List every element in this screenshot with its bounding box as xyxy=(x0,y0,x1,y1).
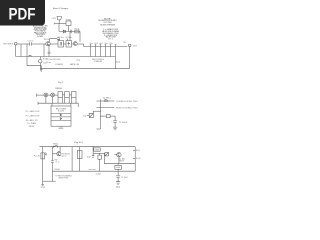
svg-text:WIRING: WIRING xyxy=(55,88,63,90)
node junction xyxy=(100,111,101,112)
svg-text:C1 10u: C1 10u xyxy=(28,41,34,43)
wire xyxy=(72,43,74,45)
svg-text:TP3: TP3 xyxy=(76,60,80,62)
svg-text:100k: 100k xyxy=(95,149,100,151)
switch SW1 xyxy=(54,145,58,148)
wire xyxy=(110,115,115,117)
wire xyxy=(69,32,71,41)
svg-text:100k: 100k xyxy=(116,167,121,169)
svg-text:C1 1000uF: C1 1000uF xyxy=(119,122,128,124)
wire xyxy=(63,94,65,96)
ground xyxy=(41,181,44,185)
wire xyxy=(52,97,54,103)
wire xyxy=(32,43,46,45)
wire xyxy=(45,97,47,103)
wire xyxy=(75,98,77,104)
wire xyxy=(79,147,81,151)
wire xyxy=(114,123,116,128)
resistor R6 tap xyxy=(133,157,135,159)
svg-text:TR2 Si: TR2 Si xyxy=(119,161,125,163)
wire lower rail xyxy=(104,163,135,165)
wire xyxy=(37,94,44,96)
capacitor C11 xyxy=(51,161,54,163)
svg-text:BC 108: BC 108 xyxy=(119,158,125,160)
switch S1 xyxy=(104,100,106,102)
wire xyxy=(48,94,51,96)
wire xyxy=(69,94,71,96)
switch contact S2a xyxy=(90,45,92,57)
resistor R1 xyxy=(106,115,110,118)
wire xyxy=(64,43,67,45)
svg-text:2u2: 2u2 xyxy=(94,43,98,45)
wire xyxy=(83,44,85,47)
lamp PL3 xyxy=(41,153,45,159)
svg-text:UNLESS OTHERWISE: UNLESS OTHERWISE xyxy=(100,24,116,26)
switch contact S2f xyxy=(115,45,117,57)
relay RLA1 xyxy=(66,21,71,26)
wire top rail xyxy=(40,146,136,148)
svg-text:TP2: TP2 xyxy=(123,42,126,44)
wire xyxy=(52,103,71,106)
svg-text:9V: 9V xyxy=(54,160,57,162)
wire xyxy=(118,157,120,164)
wire xyxy=(68,26,70,32)
trimmer VR1 xyxy=(29,55,32,56)
wire xyxy=(93,152,104,154)
svg-text:1kHz OUTPUT LEVEL: 1kHz OUTPUT LEVEL xyxy=(50,59,61,61)
svg-text:VALUES OHM: VALUES OHM xyxy=(106,36,116,39)
svg-text:5% 1: 5% 1 xyxy=(108,39,113,41)
capacitor C13 xyxy=(116,176,120,178)
wire xyxy=(97,128,101,130)
wire mid rail xyxy=(52,170,135,172)
capacitor C10 xyxy=(113,121,117,123)
wire xyxy=(51,147,53,161)
lamp PL2 xyxy=(51,93,55,97)
ground xyxy=(113,127,117,130)
wire xyxy=(51,163,53,182)
svg-text:4u7: 4u7 xyxy=(99,43,103,45)
svg-text:FRONT DOOR BELL PUSH: FRONT DOOR BELL PUSH xyxy=(116,108,138,110)
wire xyxy=(59,147,61,152)
node bus end xyxy=(37,102,39,105)
output jack SK2 xyxy=(128,44,131,47)
diode D3 xyxy=(60,118,62,120)
wire spine xyxy=(99,99,101,129)
svg-text:S1 BELL: S1 BELL xyxy=(103,97,111,99)
svg-text:COIL: COIL xyxy=(83,115,87,117)
wire mid rail xyxy=(16,56,116,58)
wire bottom left rail xyxy=(43,180,56,182)
svg-text:B1 = BELL 12V: B1 = BELL 12V xyxy=(26,120,39,122)
wire xyxy=(77,43,83,45)
svg-text:10u: 10u xyxy=(104,43,108,45)
wire xyxy=(50,43,58,45)
buzzer WD2 xyxy=(105,153,109,156)
wire xyxy=(92,111,94,113)
wire xyxy=(20,44,22,57)
svg-text:LS1: LS1 xyxy=(52,18,56,20)
svg-text:R2 1k: R2 1k xyxy=(75,29,80,31)
svg-text:SW1: SW1 xyxy=(53,143,58,145)
wire xyxy=(79,32,81,42)
svg-text:Basic IC Designs: Basic IC Designs xyxy=(53,8,68,10)
svg-text:DRIVE POINT: DRIVE POINT xyxy=(59,178,69,180)
resistor R4 xyxy=(98,155,101,159)
meter M1 xyxy=(39,57,41,60)
wire xyxy=(79,159,81,172)
diode D2 xyxy=(60,114,62,116)
wire xyxy=(117,171,119,176)
IC block U2 xyxy=(66,41,72,48)
bell B1 xyxy=(58,92,63,98)
wire xyxy=(87,114,89,116)
transformer T1 box xyxy=(51,106,71,126)
wire xyxy=(115,57,117,69)
diode D4 xyxy=(45,153,47,156)
svg-text:C2 10nF: C2 10nF xyxy=(121,177,128,179)
wire xyxy=(42,159,44,181)
wire xyxy=(17,43,30,45)
capacitor C2 xyxy=(70,30,72,33)
svg-text:TR1: TR1 xyxy=(44,39,50,41)
wire xyxy=(77,103,79,107)
svg-text:10n: 10n xyxy=(87,156,91,158)
wire xyxy=(43,44,45,57)
switch contact S2c xyxy=(100,45,102,57)
wire xyxy=(96,100,104,102)
svg-text:PDF: PDF xyxy=(9,4,36,23)
resistor R5 tap xyxy=(133,149,135,151)
wire bus xyxy=(38,102,78,104)
svg-text:(a): (a) xyxy=(116,62,121,64)
transistor TR2 xyxy=(73,42,77,46)
wire xyxy=(58,20,60,24)
svg-text:TEST INPUT: TEST INPUT xyxy=(3,44,14,46)
wire xyxy=(58,24,60,32)
wire xyxy=(71,98,73,104)
lamp PL1 xyxy=(44,93,48,97)
wire xyxy=(64,98,66,104)
svg-text:- 100n: - 100n xyxy=(95,174,101,176)
node N terminal xyxy=(36,94,38,97)
wire xyxy=(42,147,44,153)
wire xyxy=(129,47,131,69)
input jack SK1 xyxy=(14,42,17,45)
svg-text:PL2 6V: PL2 6V xyxy=(136,158,141,160)
wire bottom rail xyxy=(40,68,129,70)
svg-text:Fig 1.: Fig 1. xyxy=(58,82,65,84)
svg-text:22u: 22u xyxy=(109,43,113,45)
IC block U1 xyxy=(58,41,64,48)
wire xyxy=(15,45,17,57)
wire xyxy=(71,147,73,172)
svg-text:IC1b: IC1b xyxy=(66,37,72,39)
wire xyxy=(26,44,28,66)
node junction xyxy=(93,146,94,147)
svg-text:SELECTOR SWITCH: SELECTOR SWITCH xyxy=(92,59,105,61)
resistor R7 box xyxy=(115,165,121,169)
node junction xyxy=(54,23,56,25)
svg-text:Fig 8.2: Fig 8.2 xyxy=(74,142,83,144)
wire xyxy=(99,159,101,171)
transistor TR1 xyxy=(46,42,50,46)
capacitor C1 xyxy=(30,42,32,45)
svg-text:R1 1k: R1 1k xyxy=(136,150,140,152)
svg-text:COMMON: COMMON xyxy=(55,64,64,66)
wire xyxy=(60,126,62,127)
wire xyxy=(59,31,80,33)
relay RLA2 xyxy=(89,113,93,117)
wire xyxy=(108,100,114,102)
wire xyxy=(55,23,67,25)
svg-text:+: + xyxy=(111,121,112,123)
wire xyxy=(62,98,64,104)
sounder WD1 xyxy=(77,150,82,158)
ground xyxy=(27,66,43,72)
transistor TR3 xyxy=(57,152,61,156)
switch contact S2d xyxy=(105,45,107,57)
wire xyxy=(103,153,105,163)
wire xyxy=(114,116,116,121)
transistor TR4 xyxy=(117,153,121,157)
ground xyxy=(116,182,120,185)
wire xyxy=(96,107,114,109)
resistor R3 box xyxy=(94,148,100,151)
svg-text:IC1a: IC1a xyxy=(58,37,64,39)
capacitor C3 xyxy=(50,38,61,42)
svg-text:PUSH: PUSH xyxy=(55,169,60,171)
bell B3 xyxy=(72,92,77,98)
svg-text:TR1 BC108: TR1 BC108 xyxy=(62,153,70,155)
svg-text:npn si: npn si xyxy=(62,155,68,157)
wire xyxy=(93,110,100,112)
wire xyxy=(134,147,136,172)
buzzer LS1 xyxy=(57,17,62,20)
bell B2 xyxy=(65,92,70,98)
wire xyxy=(52,153,56,155)
capacitor C9 xyxy=(48,44,51,57)
diode D1 xyxy=(63,30,65,33)
wire xyxy=(57,98,59,104)
wire xyxy=(117,178,119,182)
resistor R2 xyxy=(75,30,79,33)
capacitor C12 xyxy=(92,153,94,157)
svg-text:1u: 1u xyxy=(89,43,93,45)
PDF badge xyxy=(0,0,45,26)
switch contact S2e xyxy=(110,45,112,57)
wire xyxy=(92,147,94,154)
switch contact S2b xyxy=(95,45,97,57)
wire xyxy=(55,94,59,96)
wire xyxy=(68,98,70,104)
wire attenuator top rail xyxy=(84,46,128,48)
wire xyxy=(114,154,116,156)
wire xyxy=(100,115,106,117)
svg-text:C1 1u: C1 1u xyxy=(55,162,59,164)
